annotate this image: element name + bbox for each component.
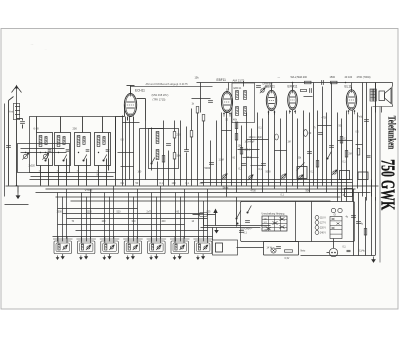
wire C1 link (17, 118, 23, 120)
electrolytic block (213, 240, 238, 255)
svg-text:110-240V~: 110-240V~ (241, 228, 253, 231)
wire (203, 121, 205, 186)
IF1 transformer box (232, 83, 255, 123)
routing line a (58, 208, 138, 210)
coil L10 (58, 244, 60, 250)
small box right2 (340, 171, 350, 180)
resistor R13 (364, 229, 367, 236)
ground G3 (85, 254, 88, 259)
svg-text:1500: 1500 (330, 76, 336, 79)
svg-text:4700 (700Ω): 4700 (700Ω) (357, 76, 371, 79)
wire hat F1 (53, 238, 73, 240)
capacitor C13 (241, 164, 246, 166)
trimmer P1 (222, 174, 227, 179)
trimmer CT7 (180, 245, 185, 250)
trimmer CT2 (63, 245, 68, 250)
node pin T4a (289, 111, 291, 113)
ground G2b (56, 256, 58, 260)
capacitor C25 (329, 146, 334, 148)
svg-text:Skala: Skala (223, 187, 230, 189)
bus line 2 (201, 182, 353, 184)
capacitor C8 (166, 144, 171, 146)
tube V5 EL11 (346, 87, 356, 114)
svg-text:110 V: 110 V (320, 218, 326, 220)
wire hat F4 (123, 238, 143, 240)
node unit 3 (78, 152, 79, 153)
terminal strip TS1 (330, 217, 342, 239)
node pin T2b (229, 113, 231, 115)
capacitor C15 (318, 133, 323, 135)
wire (292, 110, 294, 186)
wire T1 bottom (127, 117, 129, 121)
capacitor C19 (276, 247, 281, 249)
svg-text:240 V: 240 V (320, 233, 326, 235)
switch S6 (327, 152, 332, 160)
svg-text:5000: 5000 (205, 166, 211, 170)
IF1 coil d (244, 107, 247, 116)
wire bottom rail (301, 255, 376, 257)
wire (297, 119, 299, 189)
coil box unit 4 (95, 133, 111, 166)
wire (371, 107, 373, 197)
coil L4b (83, 137, 85, 145)
wire (309, 113, 311, 193)
svg-text:200: 200 (73, 127, 78, 131)
svg-text:Feld: Feld (358, 117, 363, 119)
heater circuit rails (264, 241, 299, 243)
wire unit F4 leads (127, 237, 129, 244)
ground G10 (215, 228, 218, 233)
wire (175, 193, 177, 242)
svg-text:~: ~ (31, 43, 34, 49)
oscillator coil L6 (156, 132, 159, 144)
wire wiper stem (215, 213, 217, 226)
mains switch S7 (236, 211, 241, 220)
tube V1 ECH11 (124, 91, 136, 121)
svg-text:Ant: Ant (9, 110, 13, 114)
wire hat F7 (193, 238, 213, 240)
coil L13 (128, 244, 130, 250)
wire (326, 113, 328, 193)
node unit 1 (40, 152, 41, 153)
dial lamp LP1 (271, 248, 276, 253)
node pin T2a (223, 113, 225, 115)
mains plug PL1 (329, 248, 337, 256)
electrolytic CE2 (275, 134, 279, 140)
filter unit F5 inner (150, 243, 164, 252)
capacitor C20 (351, 216, 356, 218)
resistor R3 (162, 156, 165, 163)
wire (86, 197, 88, 242)
wire band right (115, 117, 117, 186)
ground G3b (80, 256, 82, 260)
trimmer P4 (298, 175, 303, 180)
wire (357, 113, 359, 189)
bus line 7 (71, 200, 331, 202)
wire (221, 113, 223, 186)
svg-text:1500: 1500 (57, 212, 63, 214)
wire (122, 116, 124, 186)
wire osc h1 (123, 122, 140, 124)
oscillator coil box (149, 129, 179, 169)
wire switch (236, 197, 238, 227)
filter unit F3 inner (103, 243, 117, 252)
wire left feeder (8, 101, 10, 186)
svg-text:EL11: EL11 (345, 85, 352, 89)
bus line 6 (56, 196, 341, 198)
wire plug leads (333, 239, 335, 249)
wire (109, 197, 111, 242)
node unit 2 (58, 152, 59, 153)
routing line c (67, 218, 208, 220)
wire r1 (356, 144, 363, 146)
wire top label line (131, 85, 213, 87)
wire (151, 128, 153, 171)
filter unit F7 outer (194, 241, 212, 254)
coil L5 (97, 136, 100, 147)
wire link2 (238, 149, 260, 151)
trimmer CT4 (109, 245, 114, 250)
svg-text:EBF11: EBF11 (234, 86, 242, 90)
wire band top 3 (82, 117, 84, 133)
wire left edge (4, 104, 6, 197)
wire block top (212, 228, 214, 241)
routing line e (76, 230, 208, 232)
wire (346, 111, 348, 202)
wire right v2 (358, 193, 360, 256)
wire hat F6 (170, 238, 190, 240)
svg-text:6-18: 6-18 (34, 127, 40, 131)
small box right (297, 167, 307, 179)
coil L12 (105, 244, 107, 250)
wire under band box (31, 176, 114, 178)
wire block right (237, 247, 264, 249)
resistor R6 on bus (331, 81, 338, 84)
trimmer P3 (281, 174, 286, 179)
wire (216, 121, 218, 186)
wire hat F3 (100, 238, 120, 240)
capacitor C26 (245, 221, 250, 223)
wire (198, 193, 200, 242)
svg-text:1,5M: 1,5M (219, 160, 224, 162)
wire (160, 186, 162, 239)
wire (145, 121, 147, 180)
capacitor C22 (347, 250, 351, 251)
wire y227 (201, 227, 261, 229)
ground G6b (150, 256, 152, 260)
wire (62, 197, 64, 242)
capacitor C4 (66, 150, 70, 151)
wire unit F7 leads (197, 237, 199, 244)
ground G7 (178, 254, 181, 259)
ground G4b (103, 256, 105, 260)
routing line b (63, 213, 204, 215)
svg-text:(MW 468 kHz): (MW 468 kHz) (152, 93, 169, 97)
resistor R5 on bus (305, 81, 312, 84)
svg-text:4700: 4700 (322, 118, 328, 120)
wire (362, 83, 364, 197)
resistor R16 h (301, 89, 307, 91)
filter unit F4 inner (126, 243, 140, 252)
wire (375, 83, 377, 201)
filter unit F4 outer (124, 241, 142, 254)
wire speaker bottom (373, 106, 393, 108)
tube V4 EFM11 (288, 87, 298, 114)
svg-text:750 GWK: 750 GWK (377, 159, 399, 210)
wire (180, 197, 182, 242)
wire mains lower (204, 225, 271, 227)
wire (133, 197, 135, 242)
ground G6 (155, 254, 158, 259)
wire tuning link (21, 148, 65, 150)
coil box unit 1 (37, 133, 53, 166)
wire link h3 (338, 140, 353, 142)
wire (366, 83, 368, 201)
capacitor C27 (367, 156, 371, 157)
svg-text:Umschaltung Netzspg.: Umschaltung Netzspg. (262, 213, 286, 216)
capacitor C5 (86, 150, 90, 151)
wire (104, 193, 106, 242)
voltage table TB1 (262, 216, 287, 231)
wire (191, 137, 193, 186)
wire unit F3 leads (104, 237, 106, 244)
node pin T5b (354, 110, 356, 112)
ground G5b (127, 256, 129, 260)
wire ground stub (17, 186, 19, 193)
filter unit F2 inner (79, 243, 93, 252)
wire (137, 189, 139, 239)
wire (322, 87, 324, 186)
resistor R2 (173, 153, 176, 160)
node tuning b (45, 152, 46, 153)
capacitor C12 on bus (322, 80, 324, 85)
svg-text:ECH11: ECH11 (135, 89, 145, 93)
wire T5 grid (351, 83, 353, 91)
wire (128, 193, 130, 242)
wire (125, 117, 127, 186)
wire link h4 (222, 130, 232, 132)
ground G4 (108, 254, 111, 259)
svg-text:V=8 g: V=8 g (85, 188, 93, 192)
wire (174, 121, 176, 132)
ground G8 (202, 254, 205, 259)
filter unit F6 outer (171, 241, 189, 254)
switch S4 (103, 155, 107, 162)
wire (151, 193, 153, 242)
svg-text:(TFK 1715): (TFK 1715) (153, 97, 166, 101)
wire power inner v1 (295, 202, 297, 242)
wire (313, 83, 315, 186)
filter unit F6 inner (173, 243, 187, 252)
svg-text:EBF11: EBF11 (217, 78, 227, 82)
bus line 4 (46, 188, 356, 190)
svg-text:127 V: 127 V (320, 223, 326, 225)
wire T3 grid (271, 83, 273, 91)
variable capacitor CV2 (42, 153, 48, 159)
svg-text:AM 2175: AM 2175 (233, 79, 245, 83)
wire (286, 111, 288, 193)
resistor R1 (173, 132, 176, 139)
ground G7b (173, 256, 175, 260)
capacitor C18 (239, 231, 244, 233)
resistor R7 (235, 122, 238, 129)
capacitor C9 (184, 150, 189, 152)
resistor R8 (235, 134, 238, 141)
capacitor C16 (307, 152, 312, 154)
svg-text:2200: 2200 (87, 212, 93, 214)
capacitor C17 (364, 120, 369, 122)
wire grid cap T1 (130, 86, 132, 94)
svg-text:4700: 4700 (251, 190, 257, 192)
wire unit F5 leads (151, 237, 153, 244)
fuse FU1 (199, 213, 208, 217)
coil L15 (175, 244, 177, 250)
resistor R14 (196, 107, 199, 114)
arrow wiper (213, 209, 217, 214)
resistor R9 (240, 148, 243, 155)
ground G11 (372, 257, 375, 263)
trimmer CT8 (203, 245, 208, 250)
wire (226, 113, 228, 197)
capacitor C1 (20, 122, 25, 124)
antenna coupling coil L1 (13, 104, 19, 120)
wire mlink1 (243, 157, 259, 159)
filter unit F3 outer (101, 241, 119, 254)
wire unit F2 leads (80, 237, 82, 244)
wire (66, 189, 68, 239)
small box right3 (358, 172, 368, 180)
terminal circle row (315, 216, 319, 220)
capacitor C6 (106, 150, 110, 151)
wire (186, 153, 188, 186)
capacitor C14 (261, 164, 266, 166)
trimmer CT3 (86, 245, 91, 250)
svg-text:1M: 1M (288, 142, 291, 144)
wire top bus (197, 82, 376, 84)
wire (303, 111, 305, 186)
wire hat F2 (76, 238, 96, 240)
wire fuse leads (193, 214, 200, 216)
node pin T3b (274, 111, 276, 113)
filter unit F1 outer (54, 241, 72, 254)
tuning box (18, 144, 70, 173)
routing line d (58, 224, 185, 226)
svg-text:5000: 5000 (266, 172, 272, 174)
svg-text:AM und KW-Bereich abgegl. 6.21: AM und KW-Bereich abgegl. 6.2175 (146, 82, 189, 86)
bus line 1 (30, 179, 353, 181)
wire link h2 (318, 125, 332, 127)
svg-text:WA 2,5MA 200: WA 2,5MA 200 (291, 76, 308, 79)
capacitor C10 (209, 163, 214, 165)
trimmer P5 (332, 170, 337, 175)
wire left feeder top (9, 97, 14, 101)
coil L3b (63, 137, 65, 145)
wire right v4 (371, 180, 373, 256)
trimmer CT6 (156, 245, 161, 250)
resistor R18 (357, 149, 360, 156)
wire band top 2 (60, 117, 62, 133)
wire left edge h (5, 204, 29, 206)
tube V2 EBF11 (221, 88, 232, 116)
junction box (345, 189, 353, 197)
switch S8 (247, 206, 252, 214)
node bus dot 1 (345, 82, 347, 84)
resistor R12 (285, 250, 293, 252)
wire (246, 113, 248, 186)
coil L4 (77, 136, 80, 147)
switch S3 (83, 155, 87, 162)
resistor R10 (340, 137, 343, 144)
resistor R4 (190, 131, 193, 138)
switch S5 (151, 158, 155, 165)
wire link1 (247, 139, 269, 141)
coil L11 (81, 244, 83, 250)
node tuning a (25, 152, 26, 153)
IF1 coil b (244, 91, 247, 100)
resistor R17 (345, 151, 348, 158)
wire fuse drop (203, 217, 205, 226)
potentiometer arrow (297, 163, 305, 171)
wire (81, 193, 83, 242)
wire (57, 193, 59, 242)
wire (174, 159, 176, 186)
routing line f (53, 236, 213, 238)
switch S1 (45, 155, 49, 162)
loudspeaker LS1 (379, 87, 392, 105)
wire (341, 119, 343, 202)
svg-text:100cm 40pF: 100cm 40pF (249, 136, 263, 139)
filter unit F7 inner (196, 243, 210, 252)
wire T2 grid (228, 83, 230, 91)
wire (331, 83, 333, 186)
svg-text:2x0,1: 2x0,1 (245, 150, 251, 152)
ground G2 (61, 254, 64, 259)
trimmer CT1 (260, 88, 265, 93)
wire (317, 111, 319, 189)
wire top drop2 (200, 83, 202, 113)
wire (236, 123, 238, 193)
ground G5 (131, 254, 134, 259)
wire (262, 119, 264, 193)
resistor R15 (202, 115, 205, 122)
wire unit F1 leads (57, 237, 59, 244)
node bus dot 2 (292, 82, 294, 84)
wire link h5 (275, 150, 287, 152)
wire antenna down (16, 127, 18, 186)
bus line 5 (36, 192, 371, 194)
wire link h1 (304, 96, 313, 98)
filter unit F1 inner (56, 243, 70, 252)
electrolytic CE1 (304, 130, 308, 137)
output transformer TR1 (370, 89, 376, 101)
oscillator coil L7 (156, 150, 159, 160)
capacitor C24 (310, 88, 312, 93)
wire (352, 111, 354, 202)
IF1 coil c (236, 107, 239, 116)
wire osc h4 (121, 166, 134, 168)
wire right col a (381, 107, 383, 113)
filter unit F2 outer (77, 241, 95, 254)
capacitor C21 (356, 222, 361, 224)
ground G8b (197, 256, 199, 260)
node pin T3a (268, 111, 270, 113)
wire (133, 117, 135, 186)
wire (139, 129, 141, 186)
svg-text:Netz: Netz (301, 250, 307, 253)
node pin T5a (348, 110, 350, 112)
wire right v3 (365, 197, 367, 256)
ground G1 (16, 193, 20, 199)
